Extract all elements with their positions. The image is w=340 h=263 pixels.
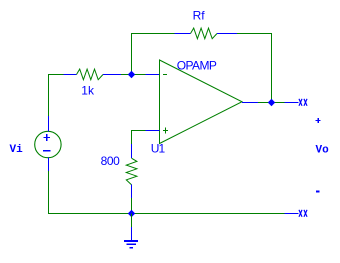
node C junction (128, 210, 135, 217)
wire: feedback top rail right segment (237, 34, 272, 103)
node B junction (268, 99, 275, 106)
wire: node A to opamp inverting pin (132, 74, 146, 76)
svg-text:Vi: Vi (10, 144, 24, 156)
port terminal XX bottom right (299, 210, 307, 217)
wire: node C to ground (131, 214, 133, 228)
svg-text:OPAMP: OPAMP (177, 59, 217, 73)
voltage source Vi (35, 116, 61, 171)
label Vo minus mark (316, 190, 320, 192)
svg-text:1k: 1k (81, 84, 95, 98)
pin: opamp output (242, 102, 258, 104)
pin: opamp noninverting input (146, 130, 160, 132)
wire: node B to output port (272, 102, 285, 104)
ground (124, 227, 138, 248)
wire: 800 to bottom node (131, 198, 133, 214)
wire: source top to 1k (49, 75, 64, 117)
pin: output port top (285, 102, 299, 104)
wire: noninverting branch horizontal (132, 131, 146, 145)
svg-text:U1: U1 (151, 142, 166, 156)
node A junction (128, 71, 135, 78)
pin: output port bottom (285, 213, 299, 215)
pin: opamp inverting input (146, 74, 160, 76)
wire: 1k to node A (121, 74, 132, 76)
resistor Rf (feedback) (175, 28, 238, 39)
op-amp U1 (160, 60, 243, 144)
svg-text:Vo: Vo (316, 144, 330, 156)
wire: feedback top rail left segment (132, 34, 175, 75)
port terminal XX top right (299, 99, 307, 106)
wire: source bottom to bottom rail (49, 171, 132, 214)
wire: opamp output to node B (258, 102, 272, 104)
resistor R1 1k (64, 69, 122, 80)
resistor R2 800 (126, 144, 137, 198)
svg-text:Rf: Rf (193, 9, 206, 23)
wire: bottom rail to port (132, 213, 285, 215)
label Vo plus mark (316, 118, 321, 123)
svg-text:800: 800 (101, 154, 121, 168)
